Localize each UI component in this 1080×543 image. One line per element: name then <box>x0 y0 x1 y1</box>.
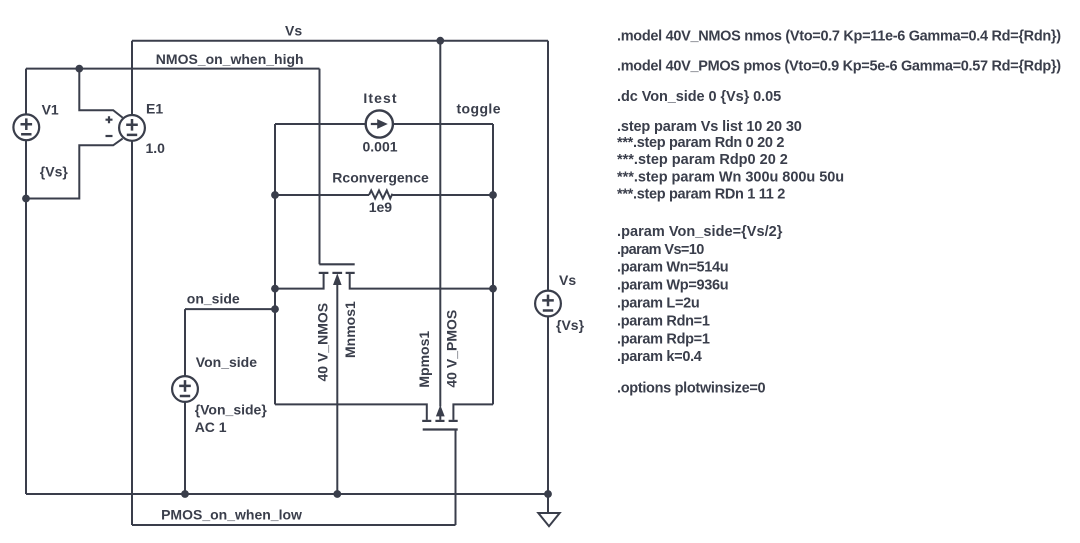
NMOS gate bar <box>319 263 354 265</box>
svg-text:Von_side: Von_side <box>196 354 257 370</box>
voltage source Von_side <box>172 376 198 402</box>
node Rconvergence right <box>489 191 497 199</box>
svg-text:***.step param Rdn 0 20 2: ***.step param Rdn 0 20 2 <box>617 135 784 151</box>
node V1- / E1- tap <box>22 195 30 203</box>
svg-text:V1: V1 <box>42 101 59 117</box>
node ground junction <box>544 490 552 498</box>
svg-text:.param L=2u: .param L=2u <box>617 296 699 312</box>
svg-text:.step param Vs list 10 20 30: .step param Vs list 10 20 30 <box>617 119 802 135</box>
svg-text:.model 40V_PMOS pmos (Vto=0.9: .model 40V_PMOS pmos (Vto=0.9 Kp=5e-6 Ga… <box>617 58 1061 74</box>
wire PMOS_on_when_low rail <box>132 524 456 526</box>
wire bottom rail <box>26 493 548 495</box>
svg-text:Mnmos1: Mnmos1 <box>342 301 358 358</box>
PMOS channel segments <box>422 420 431 422</box>
voltage source V1 <box>13 114 39 140</box>
svg-text:Vs: Vs <box>285 23 302 39</box>
wire E1 minus input <box>26 139 123 199</box>
PMOS gate bar <box>423 428 458 430</box>
wire NMOS source row <box>275 273 324 289</box>
svg-text:.param Rdn=1: .param Rdn=1 <box>617 313 710 329</box>
svg-text:PMOS_on_when_low: PMOS_on_when_low <box>161 507 302 523</box>
node NMOS bulk bottom <box>333 490 341 498</box>
node Vs rail / PMOS bulk tap <box>436 37 444 45</box>
svg-text:0.001: 0.001 <box>363 139 398 155</box>
svg-text:40 V_PMOS: 40 V_PMOS <box>443 310 459 388</box>
wire NMOS bulk drop <box>336 285 338 495</box>
svg-text:.dc Von_side 0 {Vs} 0.05: .dc Von_side 0 {Vs} 0.05 <box>617 89 781 105</box>
E1 control plus sign <box>106 116 113 123</box>
svg-text:NMOS_on_when_high: NMOS_on_when_high <box>156 51 304 67</box>
spice directive text block <box>617 29 1061 397</box>
svg-text:.options plotwinsize=0: .options plotwinsize=0 <box>617 380 766 396</box>
node on_side tap <box>271 305 279 313</box>
svg-text:AC 1: AC 1 <box>195 419 227 435</box>
svg-text:toggle: toggle <box>457 100 501 116</box>
NMOS channel segments <box>319 272 329 274</box>
svg-text:1.0: 1.0 <box>146 140 166 156</box>
wire NMOS drain row <box>350 273 493 289</box>
NMOS bulk arrow head <box>333 273 342 285</box>
svg-text:{Vs}: {Vs} <box>556 317 585 333</box>
svg-text:{Von_side}: {Von_side} <box>195 402 268 418</box>
wire V1 branch <box>25 69 27 494</box>
svg-text:{Vs}: {Vs} <box>40 164 69 180</box>
wire E1 branch vertical <box>131 41 133 525</box>
node NMOS drain / toggle <box>489 285 497 293</box>
svg-text:.param k=0.4: .param k=0.4 <box>617 349 702 365</box>
wire Rconvergence row left <box>275 194 369 196</box>
voltage source Vs <box>535 291 561 317</box>
wire Vs top rail <box>132 40 548 42</box>
node Von_side bottom <box>181 490 189 498</box>
transistor Mpmos1 (PMOS symbol) <box>422 421 458 430</box>
wire NMOS_on_when_high net <box>26 68 320 70</box>
wire PMOS bulk line from Vs rail <box>439 41 441 407</box>
wire PMOS bulk stub <box>439 415 441 420</box>
wire Von_side branch <box>184 309 186 494</box>
wire NMOS gate drop <box>319 69 321 265</box>
transistor Mnmos1 (NMOS symbol) <box>319 264 355 273</box>
svg-text:***.step param Wn 300u 800u 50: ***.step param Wn 300u 800u 50u <box>617 169 844 185</box>
current source Itest <box>366 110 393 137</box>
svg-text:.param Wp=936u: .param Wp=936u <box>617 278 728 294</box>
wire PMOS source row <box>453 404 493 420</box>
svg-text:***.step param RDn 1 11 2: ***.step param RDn 1 11 2 <box>617 187 785 203</box>
svg-text:Rconvergence: Rconvergence <box>332 169 429 185</box>
wire E1 plus input <box>79 69 122 118</box>
node NMOS_on_when_high / E1+ tap <box>75 65 83 73</box>
svg-text:Vs: Vs <box>559 272 576 288</box>
svg-text:1e9: 1e9 <box>369 199 393 215</box>
svg-text:.param Von_side={Vs/2}: .param Von_side={Vs/2} <box>617 224 783 240</box>
node NMOS source <box>271 285 279 293</box>
svg-text:.param Vs=10: .param Vs=10 <box>617 242 704 258</box>
svg-text:.param Rdp=1: .param Rdp=1 <box>617 331 710 347</box>
E1 control minus sign <box>106 135 113 137</box>
ground symbol <box>538 494 559 526</box>
svg-text:Mpmos1: Mpmos1 <box>416 331 432 388</box>
wire left loop vertical <box>274 124 276 404</box>
svg-text:on_side: on_side <box>187 290 240 306</box>
wire Itest row <box>275 123 493 125</box>
resistor Rconvergence zigzag <box>369 190 493 198</box>
wire toggle vertical <box>492 124 494 404</box>
wire right rail (Vs source branch) <box>547 41 549 494</box>
wire PMOS gate riser <box>455 430 457 526</box>
PMOS bulk arrow head <box>436 405 445 416</box>
svg-text:***.step param Rdp0 20 2: ***.step param Rdp0 20 2 <box>617 152 788 168</box>
wire PMOS drain row <box>275 404 427 420</box>
node junction dots <box>22 37 552 498</box>
svg-text:Itest: Itest <box>363 90 397 106</box>
svg-text:.model 40V_NMOS nmos (Vto=0.7: .model 40V_NMOS nmos (Vto=0.7 Kp=11e-6 G… <box>617 29 1061 45</box>
svg-text:40 V_NMOS: 40 V_NMOS <box>314 303 330 382</box>
svg-text:.param Wn=514u: .param Wn=514u <box>617 260 728 276</box>
svg-text:E1: E1 <box>146 101 163 117</box>
controlled source E1 <box>106 115 145 141</box>
wire on_side net <box>185 308 275 310</box>
node Rconvergence left <box>271 191 279 199</box>
